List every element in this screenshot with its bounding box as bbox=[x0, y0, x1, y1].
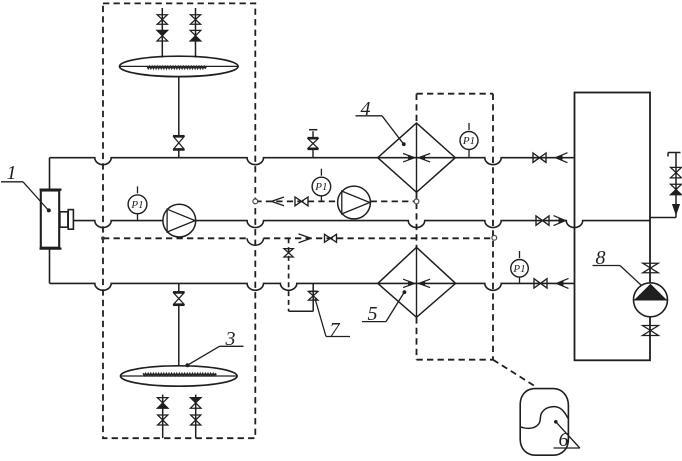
pump on pipe R2 bbox=[163, 204, 196, 237]
label 1 with leader bbox=[1, 162, 51, 212]
valve on bypass line bbox=[295, 197, 308, 206]
flanged valve on bottom ellipse drop bbox=[173, 292, 185, 305]
svg-text:6: 6 bbox=[559, 429, 569, 451]
valve (open) top-right stub bbox=[190, 15, 200, 25]
wire from top ellipse down to pipe R1 bbox=[178, 77, 180, 158]
flow arrow on pipe R2 (right) bbox=[554, 216, 566, 226]
svg-text:P1: P1 bbox=[512, 263, 525, 275]
wire riser from device 1 down to pipe R4 bbox=[49, 249, 51, 283]
converging flow arrows in exchanger 4 bbox=[403, 154, 430, 162]
check valve (filled bottom) top-right stub bbox=[190, 30, 201, 41]
valve 7 on branch riser bbox=[308, 291, 318, 300]
pipe R2 horizontal (right part) bbox=[196, 221, 650, 228]
label 3 with leader bbox=[186, 328, 244, 367]
PI gauge on bypass line bbox=[312, 169, 331, 202]
wire stub bottom-right with valves bbox=[195, 395, 197, 438]
valve above pump 8 bbox=[643, 263, 659, 273]
branch bottom wire bbox=[289, 283, 314, 311]
valve on pipe R1 near tank bbox=[533, 153, 546, 162]
fan unit ellipse (top) bbox=[120, 56, 239, 76]
check valve (filled bottom) on feed line bbox=[671, 184, 682, 195]
dashed enclosure box around heat exchangers 4 and 5 bbox=[417, 94, 494, 360]
flanged valve on top ellipse drop bbox=[173, 136, 185, 150]
svg-text:4: 4 bbox=[361, 98, 371, 120]
svg-text:P1: P1 bbox=[130, 199, 143, 211]
flow arrow on bypass (left, open) bbox=[272, 197, 285, 206]
valve (open) bottom-left stub bbox=[158, 415, 168, 425]
flow arrow on pipe R4 (left) bbox=[557, 278, 569, 288]
check valve (filled top) bottom-right stub bbox=[190, 398, 201, 409]
valve on dashed branch bbox=[284, 249, 293, 257]
svg-text:P1: P1 bbox=[314, 181, 327, 193]
check valve (filled top) top-left stub bbox=[157, 30, 168, 41]
feed line end tick bbox=[668, 153, 681, 157]
pump on bypass line bbox=[338, 186, 371, 219]
valve on pipe R2 near tank bbox=[536, 216, 549, 225]
flow arrow down on feed line bbox=[672, 204, 680, 216]
fan unit ellipse 3 (bottom) bbox=[121, 366, 238, 386]
heat exchanger 4 (diamond) bbox=[378, 123, 456, 192]
label 5 with leader bbox=[362, 290, 406, 325]
node at right end of R3 bbox=[492, 235, 497, 240]
flow arrow on pipe R1 (left) bbox=[556, 153, 568, 163]
hatch band in bottom ellipse bbox=[143, 373, 217, 376]
dashed enclosure box around fan units (left) bbox=[103, 3, 255, 438]
hatch band in top ellipse bbox=[147, 66, 207, 69]
label 4 with leader bbox=[356, 98, 406, 146]
valve below pump 8 bbox=[643, 326, 659, 336]
pump 8 on tank right side bbox=[634, 283, 668, 317]
junction dot at left end of R3 bbox=[101, 236, 105, 240]
pipe R1 top horizontal bbox=[50, 158, 574, 165]
vent valve on pipe R1 bbox=[308, 130, 319, 158]
dashed bypass line (middle) bbox=[255, 200, 416, 202]
valve (open) bottom-right stub bbox=[191, 415, 201, 425]
svg-text:7: 7 bbox=[330, 319, 341, 341]
consumer unit 6 (blob) bbox=[520, 389, 568, 456]
valve (open) top-left stub bbox=[157, 15, 167, 25]
dashed leader from enclosure to consumer blob 6 bbox=[493, 360, 537, 388]
svg-text:1: 1 bbox=[7, 162, 17, 184]
wire stub bottom-left with valves bbox=[162, 395, 164, 438]
heat exchanger 5 (diamond) bbox=[378, 247, 456, 317]
label 8 with leader bbox=[593, 247, 642, 286]
device 1 body bbox=[40, 190, 74, 249]
wire from pipe R4 down to bottom ellipse bbox=[178, 283, 180, 366]
PI gauge on pipe R4 bbox=[511, 251, 529, 283]
PI gauge on pipe R1 bbox=[460, 123, 478, 158]
pipe R4 bottom horizontal bbox=[50, 283, 575, 290]
valve on dashed line R3 bbox=[325, 234, 337, 242]
wire riser from pipe R1 down to device 1 bbox=[49, 158, 51, 190]
svg-text:P1: P1 bbox=[462, 135, 475, 147]
node at left end of bypass bbox=[253, 199, 258, 204]
make-up feed wire bbox=[650, 153, 676, 218]
wire stub top-right with valves bbox=[195, 8, 197, 58]
valve on pipe R4 near tank bbox=[534, 279, 547, 288]
valve (open) on feed line bbox=[671, 167, 682, 178]
tank (right rectangle) bbox=[575, 93, 651, 361]
converging flow arrows in exchanger 5 bbox=[403, 279, 430, 287]
label 7 with leader bbox=[315, 299, 350, 342]
pipe R2 horizontal (left part) bbox=[74, 221, 164, 228]
dashed branch drop from R3 bbox=[288, 238, 290, 311]
check valve (filled bottom) bottom-left stub bbox=[157, 398, 168, 409]
PI gauge on pipe R2 bbox=[128, 186, 147, 220]
label 6 with leader bbox=[554, 420, 580, 451]
wire stub top-left with valves bbox=[161, 8, 163, 58]
node at right end of bypass bbox=[414, 199, 419, 204]
jump bump on R3 at dashed vertical bbox=[247, 238, 263, 245]
flow arrow on R3 (right, open) bbox=[299, 234, 312, 243]
dashed line R3 bbox=[103, 237, 494, 239]
svg-text:3: 3 bbox=[225, 328, 236, 350]
